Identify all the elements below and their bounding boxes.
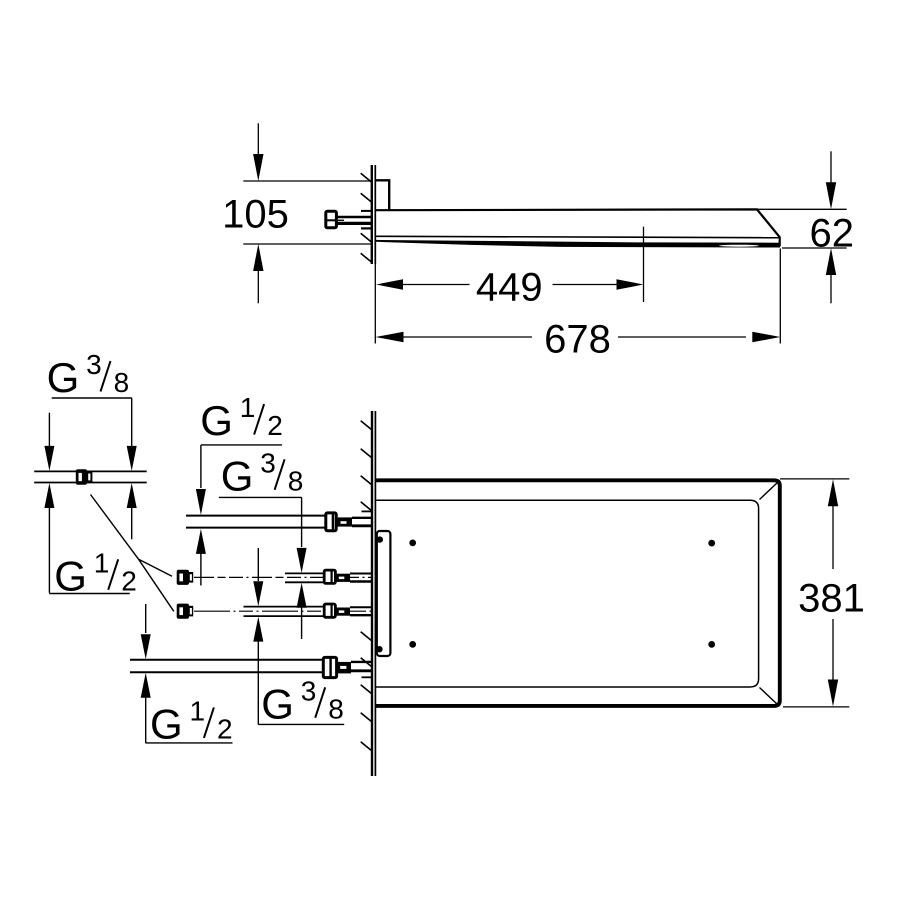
- pipe 2 OD lower arrow: [297, 583, 307, 608]
- mounting plate screw dot top: [377, 536, 383, 542]
- pipe 4 stem: [351, 661, 372, 663]
- pipe 3 body: [335, 608, 350, 616]
- svg-text:381: 381: [798, 577, 865, 621]
- mounting bracket outline: [375, 180, 389, 209]
- shower head bottom upper line: [375, 236, 779, 237]
- pipe 3 stem: [350, 606, 372, 608]
- svg-text:449: 449: [476, 265, 543, 309]
- pipe 2 connector fitting: [177, 570, 189, 585]
- pipe 4 body: [337, 662, 351, 674]
- wall hatching (side view): [361, 173, 372, 182]
- svg-text:3: 3: [301, 675, 317, 706]
- svg-text:8: 8: [328, 693, 344, 724]
- wall (side view) vertical double line: [371, 165, 373, 264]
- svg-text:2: 2: [121, 565, 137, 596]
- plan screw hole dot bottom-left: [409, 641, 416, 648]
- corner chamfer diagonal top-right: [760, 483, 778, 500]
- pipe 1 stem: [352, 517, 372, 519]
- pipe 2 edges: [285, 572, 324, 574]
- pipe 2 (G3/8) centerline: [194, 576, 373, 578]
- dimension 678 line and arrows: [376, 332, 404, 343]
- pipe 3 edges: [244, 606, 325, 608]
- dimension 105 extension line bottom: [243, 243, 371, 245]
- shower head top edge with right bevel: [375, 209, 779, 246]
- svg-text:2: 2: [267, 410, 283, 441]
- svg-text:3: 3: [260, 447, 276, 478]
- pipe 3 (G3/8) centerline: [194, 610, 373, 612]
- adapter callout pipe: [34, 470, 147, 472]
- dimension 449 extension line right: [643, 227, 645, 302]
- wall (plan view) vertical double line: [371, 411, 373, 776]
- dimension 62 extension line top: [758, 208, 847, 210]
- flange stub above screw: [361, 210, 371, 212]
- dimension 105 extension line top: [243, 180, 371, 182]
- svg-text:G: G: [150, 700, 183, 747]
- dimension 678 extension line right: [779, 249, 781, 344]
- svg-text:678: 678: [544, 318, 611, 362]
- svg-text:8: 8: [288, 465, 304, 496]
- svg-text:1: 1: [190, 695, 206, 726]
- adapter OD arrows left: [48, 413, 50, 446]
- label G1/2 bottom underline and leader: [141, 673, 151, 698]
- pipe 1 nut: [326, 513, 336, 531]
- pipe 4 (G1/2 bottom) edges: [130, 659, 323, 661]
- dimension 62 arrows: [830, 151, 832, 185]
- pipe 2 body: [335, 574, 350, 582]
- shared left extension line for 449 and 678: [374, 264, 376, 344]
- flange stub below screw: [361, 227, 371, 229]
- pipe 3 nut: [324, 604, 335, 617]
- adapter OD arrows right: [127, 483, 137, 508]
- adapter callout fitting: [76, 469, 87, 484]
- pipe 1 (G1/2 top) edges: [186, 515, 326, 517]
- svg-text:1: 1: [94, 547, 110, 578]
- dimension 381 extension line top: [780, 478, 849, 480]
- svg-text:1: 1: [240, 392, 256, 423]
- dimension 449 line and arrows: [376, 279, 403, 290]
- svg-text:G: G: [221, 452, 254, 499]
- svg-text:G: G: [200, 397, 233, 444]
- dimension 62 extension line bottom: [782, 247, 847, 249]
- label G1/2 left underline: [49, 593, 130, 595]
- dimension 381 line and arrows: [828, 479, 838, 506]
- plan outer rectangle (shower head body): [375, 480, 779, 706]
- label G3/8 top-left underline and leader: [52, 397, 132, 399]
- mounting plate screw dot bottom: [376, 646, 382, 652]
- plan inner rectangle: [375, 500, 758, 687]
- label G1/2 mid-top underline and leader: [201, 444, 282, 446]
- pipe 1 wall-hole stub: [362, 510, 373, 512]
- dimension 381 extension line bottom: [783, 706, 849, 708]
- corner chamfer diagonal bottom-right: [760, 688, 778, 705]
- pipe 2 nut: [324, 570, 335, 583]
- plan screw hole dot top-right: [708, 540, 715, 547]
- svg-text:105: 105: [222, 193, 289, 237]
- screw head: [326, 211, 337, 227]
- plan screw hole dot top-left: [409, 540, 416, 547]
- pipe 4 nut: [323, 657, 336, 677]
- shower head spray face band: [375, 240, 780, 248]
- svg-text:G: G: [54, 552, 87, 599]
- pipe 4 upper arrow: [145, 604, 147, 633]
- dimension 105 arrows: [257, 123, 259, 157]
- svg-text:62: 62: [810, 212, 855, 256]
- svg-text:3: 3: [86, 349, 102, 380]
- pipe 3 OD upper arrow: [257, 548, 259, 581]
- pipe 3 connector fitting: [177, 604, 189, 619]
- pipe 1 OD lower arrow: [196, 529, 206, 554]
- leader line from adapter to fittings: [91, 495, 174, 612]
- svg-text:8: 8: [114, 367, 130, 398]
- pipe 1 body: [336, 517, 352, 526]
- label G3/8 mid underline and leader: [219, 496, 302, 498]
- mounting plate: [377, 531, 391, 656]
- svg-text:G: G: [261, 680, 294, 727]
- screw shaft: [336, 216, 372, 219]
- pipe 2 stem: [350, 573, 372, 575]
- wall hatching (plan view): [361, 421, 372, 430]
- svg-text:2: 2: [217, 713, 233, 744]
- plan screw hole dot bottom-right: [708, 641, 715, 648]
- svg-text:G: G: [47, 354, 80, 401]
- pipe 4 wall-hole stub: [362, 676, 373, 678]
- label G3/8 bottom underline and leader: [253, 617, 263, 642]
